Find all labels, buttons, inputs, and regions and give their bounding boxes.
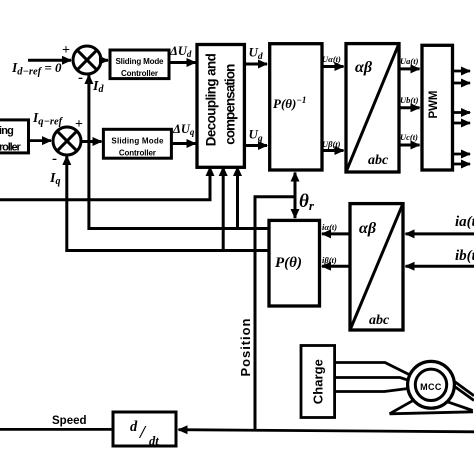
motor shaft coupling line 1 [440, 371, 474, 396]
block inverse clarke alpha-beta to abc [346, 44, 399, 172]
wire speed feed into decoupling from left edge [0, 167, 210, 200]
wire PWM output 6 [454, 163, 471, 166]
svg-text:αβ: αβ [355, 59, 373, 76]
wire position line up to theta-r node [255, 197, 295, 431]
block d/dt [113, 412, 176, 446]
svg-text:compensation: compensation [223, 64, 238, 145]
wire U-alpha to alpha-beta/abc block [322, 65, 344, 68]
svg-text:Charge: Charge [310, 359, 325, 404]
wire speed-controller output to summing junction J2 [29, 139, 52, 142]
wire PWM output 4 [454, 122, 471, 125]
wire PWM output 5 [454, 153, 471, 156]
charge box [301, 346, 335, 418]
wire U-beta to alpha-beta/abc block [322, 149, 344, 152]
svg-text:Ua(t): Ua(t) [400, 56, 419, 66]
wire Ua to PWM [399, 67, 420, 70]
svg-text:iα(t): iα(t) [322, 222, 337, 232]
wire Uc to PWM [399, 144, 420, 147]
wire theta-r double arrow between P(theta)^-1 and P(theta) [294, 173, 297, 219]
svg-text:P(θ): P(θ) [275, 255, 302, 271]
svg-text:ia(t): ia(t) [455, 214, 474, 230]
svg-text:roller: roller [0, 142, 22, 154]
wire motor phase a from charge [335, 363, 420, 381]
svg-text:dt: dt [149, 434, 159, 448]
wire Id branch into decoupling [236, 167, 239, 229]
wire J1 to SMC1 [101, 59, 109, 62]
motor MCC inner circle [415, 369, 446, 400]
svg-text:abc: abc [369, 313, 390, 328]
decoupling and compensation block [197, 45, 244, 168]
wire SMC2 to decoupling [171, 142, 195, 145]
wire SMC1 to decoupling [169, 61, 196, 64]
motor shaft coupling line 2 [438, 375, 474, 401]
block P(theta)^-1 [270, 44, 322, 170]
wire i-alpha into P(theta) [322, 232, 350, 235]
svg-text:ing: ing [0, 125, 14, 137]
svg-text:+: + [62, 43, 70, 58]
block PWM [422, 45, 453, 170]
wire Iq branch into decoupling [222, 167, 225, 251]
wire speed output to left edge [0, 428, 113, 431]
svg-text:αβ: αβ [359, 220, 377, 237]
wire ia into clarke block [406, 232, 474, 235]
wire Ub to PWM [399, 106, 420, 109]
motor stand right leg [445, 401, 473, 411]
block clarke abc to alpha-beta [350, 204, 403, 330]
svg-text:Sliding Mode: Sliding Mode [116, 57, 165, 66]
speed controller box (cut off at left edge) [0, 120, 29, 153]
svg-text:Position: Position [238, 318, 253, 376]
svg-text:Controller: Controller [121, 69, 158, 78]
sliding mode controller SMC1 [110, 50, 169, 79]
svg-text:PWM: PWM [428, 91, 440, 119]
wire Id feedback from P(theta) to J1 and corner [89, 75, 269, 229]
svg-text:-: - [52, 151, 57, 167]
motor stand left leg [390, 398, 419, 414]
sliding mode controller SMC2 [103, 129, 171, 158]
svg-text:Ub(t): Ub(t) [400, 95, 419, 105]
summing junction J1 [73, 46, 101, 74]
svg-text:ib(t): ib(t) [455, 248, 474, 264]
wire i-beta into P(theta) [322, 265, 350, 268]
svg-text:Decoupling and: Decoupling and [204, 53, 219, 146]
svg-text:abc: abc [368, 153, 389, 168]
wire J2 to SMC2 [81, 140, 102, 143]
wire ib into clarke block [406, 265, 474, 268]
wire PWM output 2 [454, 82, 471, 85]
wire Ud decoupling to P(theta)^-1 [244, 63, 267, 66]
wire input to J1 [28, 59, 71, 62]
wire Uq decoupling to P(theta)^-1 [244, 144, 267, 147]
svg-text:Uc(t): Uc(t) [400, 132, 418, 142]
motor MCC outer circle [408, 361, 455, 408]
svg-text:Controller: Controller [119, 149, 156, 158]
svg-text:Uα(t): Uα(t) [322, 54, 341, 64]
svg-text:iβ(t): iβ(t) [322, 255, 337, 265]
wire motor phase b from charge [335, 378, 420, 385]
svg-text:Uβ(t): Uβ(t) [322, 139, 341, 149]
summing junction J2 [53, 127, 81, 155]
block P(theta) [269, 220, 320, 306]
wire PWM output 3 [454, 111, 471, 114]
svg-text:Speed: Speed [52, 415, 87, 427]
wire speed feedback from motor into d/dt [179, 430, 474, 432]
svg-text:Sliding Mode: Sliding Mode [111, 137, 164, 146]
wire PWM output 1 [454, 70, 471, 73]
wire Iq feedback from P(theta) to J2 [67, 156, 269, 251]
svg-text:MCC: MCC [420, 382, 442, 392]
svg-text:d: d [130, 419, 138, 435]
motor stand base [390, 412, 474, 414]
wire motor phase c from charge [335, 387, 420, 392]
